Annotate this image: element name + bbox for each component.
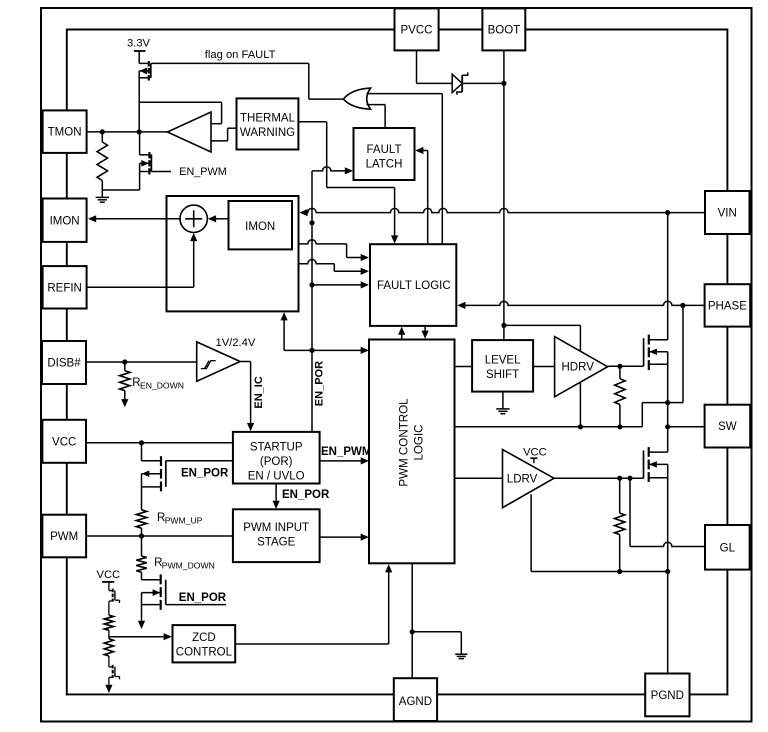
wire: ZCD tap to ZCD CONTROL (arrow): [109, 633, 172, 640]
svg-text:PWM_UP: PWM_UP: [165, 516, 203, 526]
label: flag on FAULT: [205, 49, 276, 61]
wire: IMON inner box to summing circle (arrow): [208, 215, 229, 222]
wire: LEVEL SHIFT to HDRV input: [533, 366, 555, 368]
pin box GL: [705, 525, 750, 570]
transistor Q1 (flag on FAULT pull, 3.3V): [139, 51, 151, 132]
op-amp comparator U1 (thermal, output to TMON): [167, 112, 211, 152]
wire: PVCC down to diode anode: [417, 50, 448, 83]
pin box PWM: [42, 515, 86, 558]
transistor Q2 (EN_PWM pull-down on TMON): [140, 132, 152, 190]
svg-text:IMON: IMON: [50, 215, 80, 227]
wire: SW node to PHASE vertical: [668, 305, 683, 402]
block STARTUP (POR) EN/UVLO: [233, 432, 320, 484]
svg-text:VCC: VCC: [97, 569, 121, 581]
resistor R_PWM_UP: [136, 510, 146, 536]
svg-text:HDRV: HDRV: [562, 362, 595, 374]
svg-text:SHIFT: SHIFT: [486, 369, 519, 381]
svg-text:FAULT LOGIC: FAULT LOGIC: [377, 280, 451, 292]
wire: PWM line to PWM INPUT STAGE: [87, 533, 233, 538]
amplifier LDRV: [503, 450, 555, 508]
svg-text:WARNING: WARNING: [240, 127, 295, 139]
svg-text:STAGE: STAGE: [257, 536, 295, 548]
label R_PWM_UP: [157, 512, 203, 526]
wire: PWM CONTROL LOGIC to AGND with ground branch: [410, 563, 462, 678]
label R_EN_DOWN: [132, 377, 184, 391]
pin box DISB#: [42, 341, 86, 384]
svg-text:VCC: VCC: [52, 436, 76, 448]
svg-text:PHASE: PHASE: [708, 301, 747, 313]
svg-text:THERMAL: THERMAL: [240, 112, 296, 124]
svg-text:REFIN: REFIN: [47, 282, 82, 294]
transistor M1 (mini, ZCD bias top): [109, 582, 120, 615]
svg-text:LDRV: LDRV: [507, 473, 538, 485]
wire: EN_IC from schmitt to STARTUP (arrow down): [240, 362, 254, 432]
wire: LEVEL SHIFT bottom to ground: [502, 392, 504, 409]
pin box PHASE: [705, 284, 751, 326]
block: current monitor outer box: [167, 196, 299, 311]
svg-text:LATCH: LATCH: [366, 158, 403, 170]
wire: FAULT LATCH left input (from EN_POR vertical) with hop: [312, 167, 353, 175]
wire: comparator lower input from THERMAL WARNING: [211, 128, 237, 141]
ground symbol near AGND: [455, 654, 467, 658]
wire: OR gate lower input from FAULT LATCH top: [367, 105, 386, 128]
summing junction circle with plus: [180, 205, 207, 232]
svg-text:(POR): (POR): [260, 456, 293, 468]
wire: EN_POR branch to FAULT LOGIC: [312, 281, 369, 288]
block ZCD CONTROL: [173, 625, 236, 662]
wire: right vertical bus through right pin boxes: [726, 30, 728, 696]
svg-text:GL: GL: [720, 542, 736, 554]
wire: IMON block output 2 to FAULT LOGIC (hop over EN_POR): [299, 260, 369, 275]
svg-text:TMON: TMON: [48, 127, 82, 139]
resistor LDRV gate pulldown: [615, 478, 625, 571]
svg-text:PVCC: PVCC: [401, 25, 433, 37]
label EN_POR at Q3: [181, 468, 229, 480]
svg-text:DISB#: DISB#: [47, 358, 81, 370]
svg-text:AGND: AGND: [399, 696, 432, 708]
wire: PWM CONTROL LOGIC to LEVEL SHIFT: [455, 366, 473, 368]
wire: Q6 source down to PGND: [667, 572, 669, 674]
pin box TMON: [43, 110, 87, 152]
wire: bottom horizontal rail (AGND/PGND): [66, 693, 728, 695]
wire: Q4 gate stub (EN_POR): [166, 604, 226, 606]
transistor Q6 (low-side power FET): [644, 427, 668, 572]
svg-text:EN_POR: EN_POR: [313, 361, 325, 406]
wire: EN_POR from STARTUP down to PWM INPUT STAGE: [273, 484, 280, 510]
wire: OR gate upper input from fault net vertical: [367, 94, 443, 245]
pin box PGND: [645, 674, 689, 717]
resistor on TMON to ground: [97, 132, 107, 198]
svg-text:FAULT: FAULT: [367, 144, 402, 156]
label 1V/2.4V: [216, 337, 256, 349]
block IMON (inner): [229, 201, 293, 249]
wire: flag on FAULT net (Q1 gate to OR gate output): [151, 63, 343, 99]
wire: Q2 source to resistor ground node: [102, 189, 139, 191]
wire: HDRV output to Q5 gate: [608, 364, 644, 369]
wire: VIN rail with hops and arrow into IMON block: [299, 208, 705, 216]
svg-text:LEVEL: LEVEL: [485, 355, 521, 367]
wire: FAULT LATCH right input from FAULT LOGIC vertical: [415, 147, 428, 244]
wire: Q2 gate stub: [152, 171, 172, 173]
block THERMAL WARNING: [237, 98, 299, 149]
node 3.3V supply bar: [127, 38, 151, 51]
wire: EN_POR vertical net with junction dots: [309, 171, 314, 432]
svg-text:PWM CONTROL: PWM CONTROL: [398, 398, 411, 487]
pin box PVCC: [395, 8, 439, 50]
wire: ZCD CONTROL output up into PWM CONTROL LOGIC: [235, 564, 392, 644]
wire: top horizontal rail to PVCC and BOOT: [66, 29, 728, 31]
block PWM INPUT STAGE: [233, 509, 320, 562]
node VCC tap on LDRV: [523, 447, 547, 464]
label EN_PWM at Q2 gate: [179, 166, 226, 178]
svg-text:SW: SW: [718, 421, 737, 433]
wire: Q3 gate to STARTUP (EN_POR): [166, 460, 233, 462]
wire: LDRV output to Q6 gate with dots: [554, 476, 644, 481]
pin box REFIN: [43, 266, 87, 308]
resistor HDRV gate pulldown: [615, 366, 625, 427]
wire: DISB# line: [87, 359, 197, 364]
wire: PWM CONTROL LOGIC to LDRV input: [455, 477, 503, 479]
wire: IMON block output 1 to FAULT LOGIC (hop over EN_POR): [299, 240, 369, 261]
wire: VCC line to STARTUP: [87, 440, 233, 445]
resistor ZCD divider lower: [104, 639, 113, 667]
svg-text:LOGIC: LOGIC: [412, 424, 425, 460]
label EN_POR (rotated): [313, 361, 325, 406]
wire: PWM INPUT STAGE output to PWM CONTROL LOGIC: [320, 534, 369, 541]
pin box VCC: [42, 420, 86, 463]
pin box AGND: [394, 678, 437, 721]
svg-text:PGND: PGND: [651, 690, 684, 702]
wire: SW node down to SW pin junction: [665, 403, 705, 430]
ground symbol below LEVEL SHIFT: [496, 409, 509, 414]
svg-text:ZCD: ZCD: [192, 632, 216, 644]
label R_PWM_DOWN: [154, 557, 215, 571]
svg-text:EN / UVLO: EN / UVLO: [248, 470, 305, 482]
resistor R_PWM_DOWN: [136, 536, 146, 572]
svg-text:1V/2.4V: 1V/2.4V: [216, 337, 256, 349]
svg-text:EN_POR: EN_POR: [181, 468, 229, 480]
svg-text:STARTUP: STARTUP: [250, 442, 303, 454]
svg-text:PWM INPUT: PWM INPUT: [243, 522, 309, 534]
amplifier HDRV: [555, 337, 608, 397]
block FAULT LOGIC: [370, 244, 456, 326]
wire: HDRV return to SW rail: [579, 382, 581, 427]
label EN_POR bold below STARTUP: [282, 489, 330, 501]
wire: comparator upper input from Q1 drain line: [139, 102, 221, 123]
wire: BOOT vertical to level-shift/HDRV with junction dots: [501, 50, 506, 340]
wire: THERMAL WARNING output down to FAULT LOGIC: [298, 122, 398, 244]
svg-text:EN_PWM: EN_PWM: [179, 166, 226, 178]
svg-text:EN_POR: EN_POR: [282, 489, 330, 501]
resistor ZCD divider upper: [104, 615, 113, 639]
ground below TMON resistor: [96, 197, 109, 202]
pin box VIN: [705, 191, 750, 234]
block PWM CONTROL LOGIC: [369, 340, 455, 564]
svg-text:PWM_DOWN: PWM_DOWN: [162, 561, 215, 571]
wire: left vertical bus through left pin boxes: [66, 30, 68, 696]
label EN_IC (rotated): [253, 376, 265, 408]
svg-text:VIN: VIN: [718, 208, 737, 220]
wire: FAULT LOGIC to PWM CONTROL LOGIC handshake arrows: [398, 326, 429, 340]
wire: TMON line with junction dots: [87, 129, 168, 134]
wire: EN_POR branch to IMON block bottom (arrow up) and to PWM CONTROL LOGIC: [281, 312, 369, 354]
wire: REFIN to summing circle (arrow up): [87, 233, 198, 287]
transistor M2 (mini, ZCD bias bottom): [105, 665, 119, 693]
wire: EN_PWM from STARTUP to PWM CONTROL LOGIC: [320, 457, 369, 464]
wire: GL drive down and across (hop over sw vertical): [630, 478, 705, 546]
node VCC supply bar (ZCD chain): [97, 569, 121, 582]
transistor Q4 (EN_POR, PWM branch): [142, 572, 166, 620]
pin box IMON: [43, 199, 87, 242]
svg-text:BOOT: BOOT: [488, 25, 521, 37]
pin box SW: [705, 405, 751, 448]
svg-text:flag on FAULT: flag on FAULT: [205, 49, 276, 61]
resistor R_EN_DOWN: [120, 362, 130, 407]
label EN_PWM bold: [321, 446, 371, 458]
svg-text:3.3V: 3.3V: [127, 38, 151, 50]
label EN_POR at Q4: [179, 592, 227, 604]
svg-text:VCC: VCC: [523, 447, 547, 459]
block FAULT LATCH: [354, 128, 415, 180]
transistor Q5 (high-side power FET): [644, 213, 668, 403]
pin box BOOT: [482, 8, 525, 50]
OR gate (fault flag), output points left: [343, 88, 370, 109]
arrow: Q4 source to negative rail: [138, 620, 145, 629]
svg-text:EN_DOWN: EN_DOWN: [140, 381, 184, 391]
svg-text:IMON: IMON: [245, 221, 275, 233]
wire: BOOT feed across to HDRV top: [504, 325, 581, 351]
block LEVEL SHIFT: [472, 340, 533, 392]
transistor Q3 (EN_POR, VCC branch): [142, 443, 166, 510]
wire: SW rail from PWM CONTROL LOGIC with dots and jog to SW node: [455, 400, 671, 429]
wire: LDRV return rail: [531, 494, 670, 574]
svg-text:PWM: PWM: [50, 531, 78, 543]
wire: PHASE sense into FAULT LOGIC (hops, dot): [457, 301, 705, 309]
diode D1 (schottky, PVCC to BOOT): [447, 72, 504, 94]
svg-text:EN_PWM: EN_PWM: [321, 446, 371, 458]
schmitt trigger buffer (1V/2.4V): [197, 342, 240, 381]
svg-text:EN_IC: EN_IC: [253, 376, 265, 408]
svg-text:EN_POR: EN_POR: [179, 592, 227, 604]
wire: summing circle to IMON pin (arrow): [88, 215, 180, 222]
svg-text:CONTROL: CONTROL: [176, 646, 233, 658]
